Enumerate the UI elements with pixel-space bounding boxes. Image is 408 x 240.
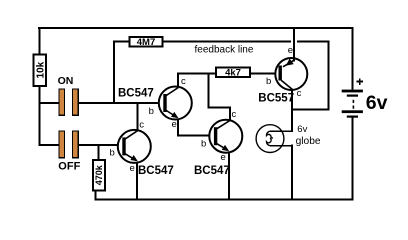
wire feedback line horizontal (left of crossing)	[162, 40, 291, 42]
wire 470k top lead	[97, 144, 99, 160]
svg-text:c: c	[232, 109, 237, 120]
wire feedback bottom horizontal to Q4 collector	[291, 108, 330, 110]
transistor Q4 BC557	[275, 57, 307, 90]
svg-text:6v: 6v	[297, 124, 307, 135]
wire Q3 collector vertical	[229, 106, 231, 121]
svg-text:b: b	[201, 138, 206, 149]
wire Q1 emitter vertical	[177, 117, 179, 136]
resistor 4M7	[130, 37, 163, 48]
wire Q1 collector vertical	[177, 73, 179, 88]
lamp 6v globe	[256, 125, 284, 153]
wire 4k7 to Q4 base	[250, 73, 281, 75]
transistor Q2 BC547	[118, 130, 151, 163]
wire 4k7 node drop to Q3 collector	[208, 73, 210, 109]
svg-text:c: c	[297, 88, 302, 99]
svg-text:c: c	[181, 76, 186, 87]
wire Q2 collector vertical to node A	[136, 102, 138, 130]
svg-text:feedback line: feedback line	[195, 44, 254, 55]
svg-text:470k: 470k	[94, 164, 104, 185]
wire Q1 collector to 4k7	[177, 73, 217, 75]
svg-text:c: c	[139, 120, 144, 131]
touch plate OFF (pad 2)	[73, 131, 79, 158]
wire ON plate left lead	[39, 102, 60, 104]
resistor 4k7	[216, 68, 250, 79]
wire bottom 0v rail	[95, 198, 354, 200]
svg-text:BC547: BC547	[138, 165, 174, 177]
wire Q1 emitter to Q3 base	[177, 134, 216, 136]
svg-text:e: e	[130, 163, 135, 174]
wire Q3 emitter vertical to 0v rail	[228, 151, 230, 201]
svg-text:b: b	[149, 106, 154, 117]
wire Q3 collector horizontal	[208, 106, 230, 108]
svg-text:e: e	[288, 45, 293, 56]
wire Q4 emitter vertical from rail	[293, 27, 295, 59]
svg-text:4M7: 4M7	[137, 37, 155, 48]
wire OFF plate to Q2 base	[79, 144, 125, 146]
wire Q2 emitter vertical to 0v rail	[136, 161, 138, 201]
svg-text:4k7: 4k7	[225, 68, 241, 79]
wire 4M7 left vertical drop to node A	[113, 41, 115, 103]
wire lamp bottom lead	[270, 145, 293, 147]
svg-text:10k: 10k	[35, 61, 46, 78]
svg-text:BC547: BC547	[194, 165, 230, 177]
svg-text:ON: ON	[58, 75, 74, 87]
svg-text:b: b	[266, 76, 271, 87]
wire 470k bottom lead	[95, 190, 97, 200]
wire top +6v rail	[38, 27, 354, 29]
wire battery positive vertical	[352, 27, 354, 90]
touch plate OFF (pad 1)	[59, 131, 65, 158]
battery B1 6v	[342, 90, 363, 118]
svg-text:b: b	[110, 147, 115, 158]
wire Q4 collector vertical to lamp	[291, 90, 293, 133]
wire 4M7 left horizontal	[113, 40, 130, 42]
svg-text:globe: globe	[296, 136, 321, 147]
label 6v globe	[296, 124, 321, 147]
label battery +	[357, 78, 364, 85]
wire lamp bottom vertical to 0v rail	[291, 145, 293, 201]
resistor 470k	[93, 160, 105, 191]
touch plate ON (pad 2)	[73, 89, 79, 115]
wire OFF plate left lead	[39, 144, 60, 146]
wire lamp top lead	[270, 130, 293, 132]
touch plate ON (pad 1)	[59, 89, 65, 115]
svg-text:e: e	[172, 119, 177, 130]
wire battery negative vertical to 0v rail	[352, 118, 354, 201]
wire ON plate to Q1 base	[79, 102, 166, 104]
svg-text:e: e	[221, 152, 226, 163]
svg-text:6v: 6v	[366, 92, 388, 114]
svg-text:BC557: BC557	[258, 93, 294, 105]
transistor Q3 BC547	[209, 120, 242, 153]
wire left vertical (rail to OFF plates)	[39, 27, 41, 146]
svg-text:OFF: OFF	[58, 160, 80, 172]
transistor Q1 BC547	[159, 87, 192, 120]
wire feedback line horizontal (right of crossing)	[297, 40, 329, 42]
svg-text:BC547: BC547	[118, 88, 154, 100]
wire feedback right vertical	[327, 41, 329, 111]
resistor 10k	[34, 55, 47, 86]
